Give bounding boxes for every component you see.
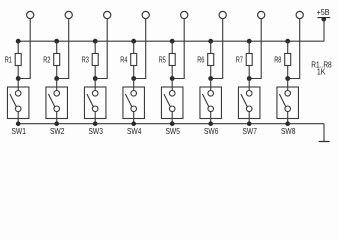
resistor R3 <box>92 54 98 66</box>
connector terminal 4 <box>142 11 149 18</box>
svg-text:R6: R6 <box>197 55 204 65</box>
connector terminal 7 <box>258 11 265 18</box>
svg-text:SW7: SW7 <box>243 126 258 136</box>
switch SW2 <box>46 87 67 119</box>
value label R1..R8 1K <box>311 60 332 77</box>
connector terminal 6 <box>219 11 226 18</box>
junction: SW2 on ground bus <box>54 121 59 126</box>
node 6 junction (R6/SW6/terminal) <box>208 76 213 81</box>
wire: R5 to node 5 <box>171 66 173 79</box>
wire: R3 to node 3 <box>94 66 96 79</box>
junction: SW4 on ground bus <box>131 121 136 126</box>
wire: SW2 to ground bus <box>56 112 58 124</box>
junction: SW3 on ground bus <box>93 121 98 126</box>
wire: terminal 3 to node 3 <box>95 19 107 79</box>
resistor R5 <box>169 54 175 66</box>
wire: R1 to node 1 <box>17 66 19 79</box>
wire: SW7 to ground bus <box>248 112 250 124</box>
connector terminal 8 <box>296 11 303 18</box>
wire: terminal 8 to node 8 <box>288 19 300 79</box>
svg-text:SW3: SW3 <box>89 126 104 136</box>
switch SW1 <box>7 87 29 119</box>
junction: R1 top on +5V bus <box>16 39 21 44</box>
wire: SW3 to ground bus <box>94 112 96 124</box>
wire: R2 to node 2 <box>56 66 58 79</box>
svg-text:R2: R2 <box>43 55 50 65</box>
svg-text:+5B: +5B <box>317 7 330 17</box>
resistor R6 <box>208 54 214 66</box>
svg-text:1K: 1K <box>317 66 326 76</box>
junction: SW6 on ground bus <box>208 121 213 126</box>
wire: node 1 to SW1 <box>17 79 19 91</box>
svg-text:SW1: SW1 <box>12 126 27 136</box>
wire: node 7 to SW7 <box>248 79 250 91</box>
resistor R4 <box>131 54 137 66</box>
node 4 junction (R4/SW4/terminal) <box>131 76 136 81</box>
node 3 junction (R3/SW3/terminal) <box>93 76 98 81</box>
node 1 junction (R1/SW1/terminal) <box>16 76 21 81</box>
svg-text:R1: R1 <box>5 55 12 65</box>
resistor R2 <box>54 54 60 66</box>
wire: node 8 to SW8 <box>287 79 289 91</box>
wire: terminal 5 to node 5 <box>172 19 184 79</box>
wire: bus to R6 <box>210 41 212 53</box>
junction: R4 top on +5V bus <box>131 39 136 44</box>
wire: bus to R1 <box>17 41 19 53</box>
wire: node 6 to SW6 <box>210 79 212 91</box>
junction: R2 top on +5V bus <box>54 39 59 44</box>
node 5 junction (R5/SW5/terminal) <box>170 76 175 81</box>
resistor R7 <box>246 54 252 66</box>
wire: R8 to node 8 <box>287 66 289 79</box>
switch SW4 <box>123 87 145 119</box>
node 2 junction (R2/SW2/terminal) <box>54 76 59 81</box>
wire: bottom bus to ground <box>323 124 325 142</box>
resistor R8 <box>285 54 291 66</box>
wire: node 5 to SW5 <box>171 79 173 91</box>
svg-text:R8: R8 <box>274 55 281 65</box>
svg-text:R4: R4 <box>120 55 127 65</box>
switch SW6 <box>200 87 222 119</box>
wire: node 3 to SW3 <box>94 79 96 91</box>
connector terminal 1 <box>27 11 34 18</box>
svg-text:R5: R5 <box>159 55 166 65</box>
svg-text:SW6: SW6 <box>204 126 219 136</box>
wire: terminal 1 to node 1 <box>18 19 30 79</box>
node 7 junction (R7/SW7/terminal) <box>247 76 252 81</box>
wire: SW8 to ground bus <box>287 112 289 124</box>
node 8 junction (R8/SW8/terminal) <box>285 76 290 81</box>
junction: R6 top on +5V bus <box>208 39 213 44</box>
wire: R6 to node 6 <box>210 66 212 79</box>
wire: bus to R7 <box>248 41 250 53</box>
wire: node 4 to SW4 <box>133 79 135 91</box>
junction: R3 top on +5V bus <box>93 39 98 44</box>
switch SW8 <box>277 87 299 119</box>
wire: R7 to node 7 <box>248 66 250 79</box>
wire: terminal 7 to node 7 <box>249 19 261 79</box>
wire: terminal 4 to node 4 <box>134 19 146 79</box>
wire: ground bottom bus <box>18 123 324 125</box>
junction: SW7 on ground bus <box>247 121 252 126</box>
wire: bus to R3 <box>94 41 96 53</box>
wire: +5B to top bus <box>323 19 325 41</box>
svg-text:SW4: SW4 <box>127 126 142 136</box>
svg-text:SW5: SW5 <box>166 126 181 136</box>
wire: SW5 to ground bus <box>171 112 173 124</box>
wire: bus to R4 <box>133 41 135 53</box>
wire: bus to R2 <box>56 41 58 53</box>
junction: SW8 on ground bus <box>285 121 290 126</box>
connector terminal 5 <box>181 11 188 18</box>
ground <box>319 141 330 143</box>
junction: R5 top on +5V bus <box>170 39 175 44</box>
svg-text:R3: R3 <box>82 55 89 65</box>
switch SW3 <box>84 87 106 119</box>
junction: SW5 on ground bus <box>170 121 175 126</box>
wire: SW6 to ground bus <box>210 112 212 124</box>
junction: SW1 on ground bus <box>16 121 21 126</box>
svg-text:SW2: SW2 <box>50 126 65 136</box>
wire: terminal 2 to node 2 <box>57 19 69 79</box>
junction: R8 top on +5V bus <box>285 39 290 44</box>
svg-text:R7: R7 <box>236 55 243 65</box>
connector terminal 3 <box>104 11 111 18</box>
connector terminal 2 <box>65 11 72 18</box>
resistor R1 <box>15 54 21 66</box>
wire: bus to R5 <box>171 41 173 53</box>
junction: R7 top on +5V bus <box>247 39 252 44</box>
wire: bus to R8 <box>287 41 289 53</box>
wire: terminal 6 to node 6 <box>211 19 223 79</box>
wire: +5V top bus <box>18 40 324 42</box>
wire: node 2 to SW2 <box>56 79 58 91</box>
switch SW5 <box>161 87 183 119</box>
wire: SW4 to ground bus <box>133 112 135 124</box>
wire: SW1 to ground bus <box>17 112 19 124</box>
wire: R4 to node 4 <box>133 66 135 79</box>
switch SW7 <box>238 87 260 119</box>
power +5B symbol <box>317 17 330 22</box>
svg-text:SW8: SW8 <box>281 126 296 136</box>
